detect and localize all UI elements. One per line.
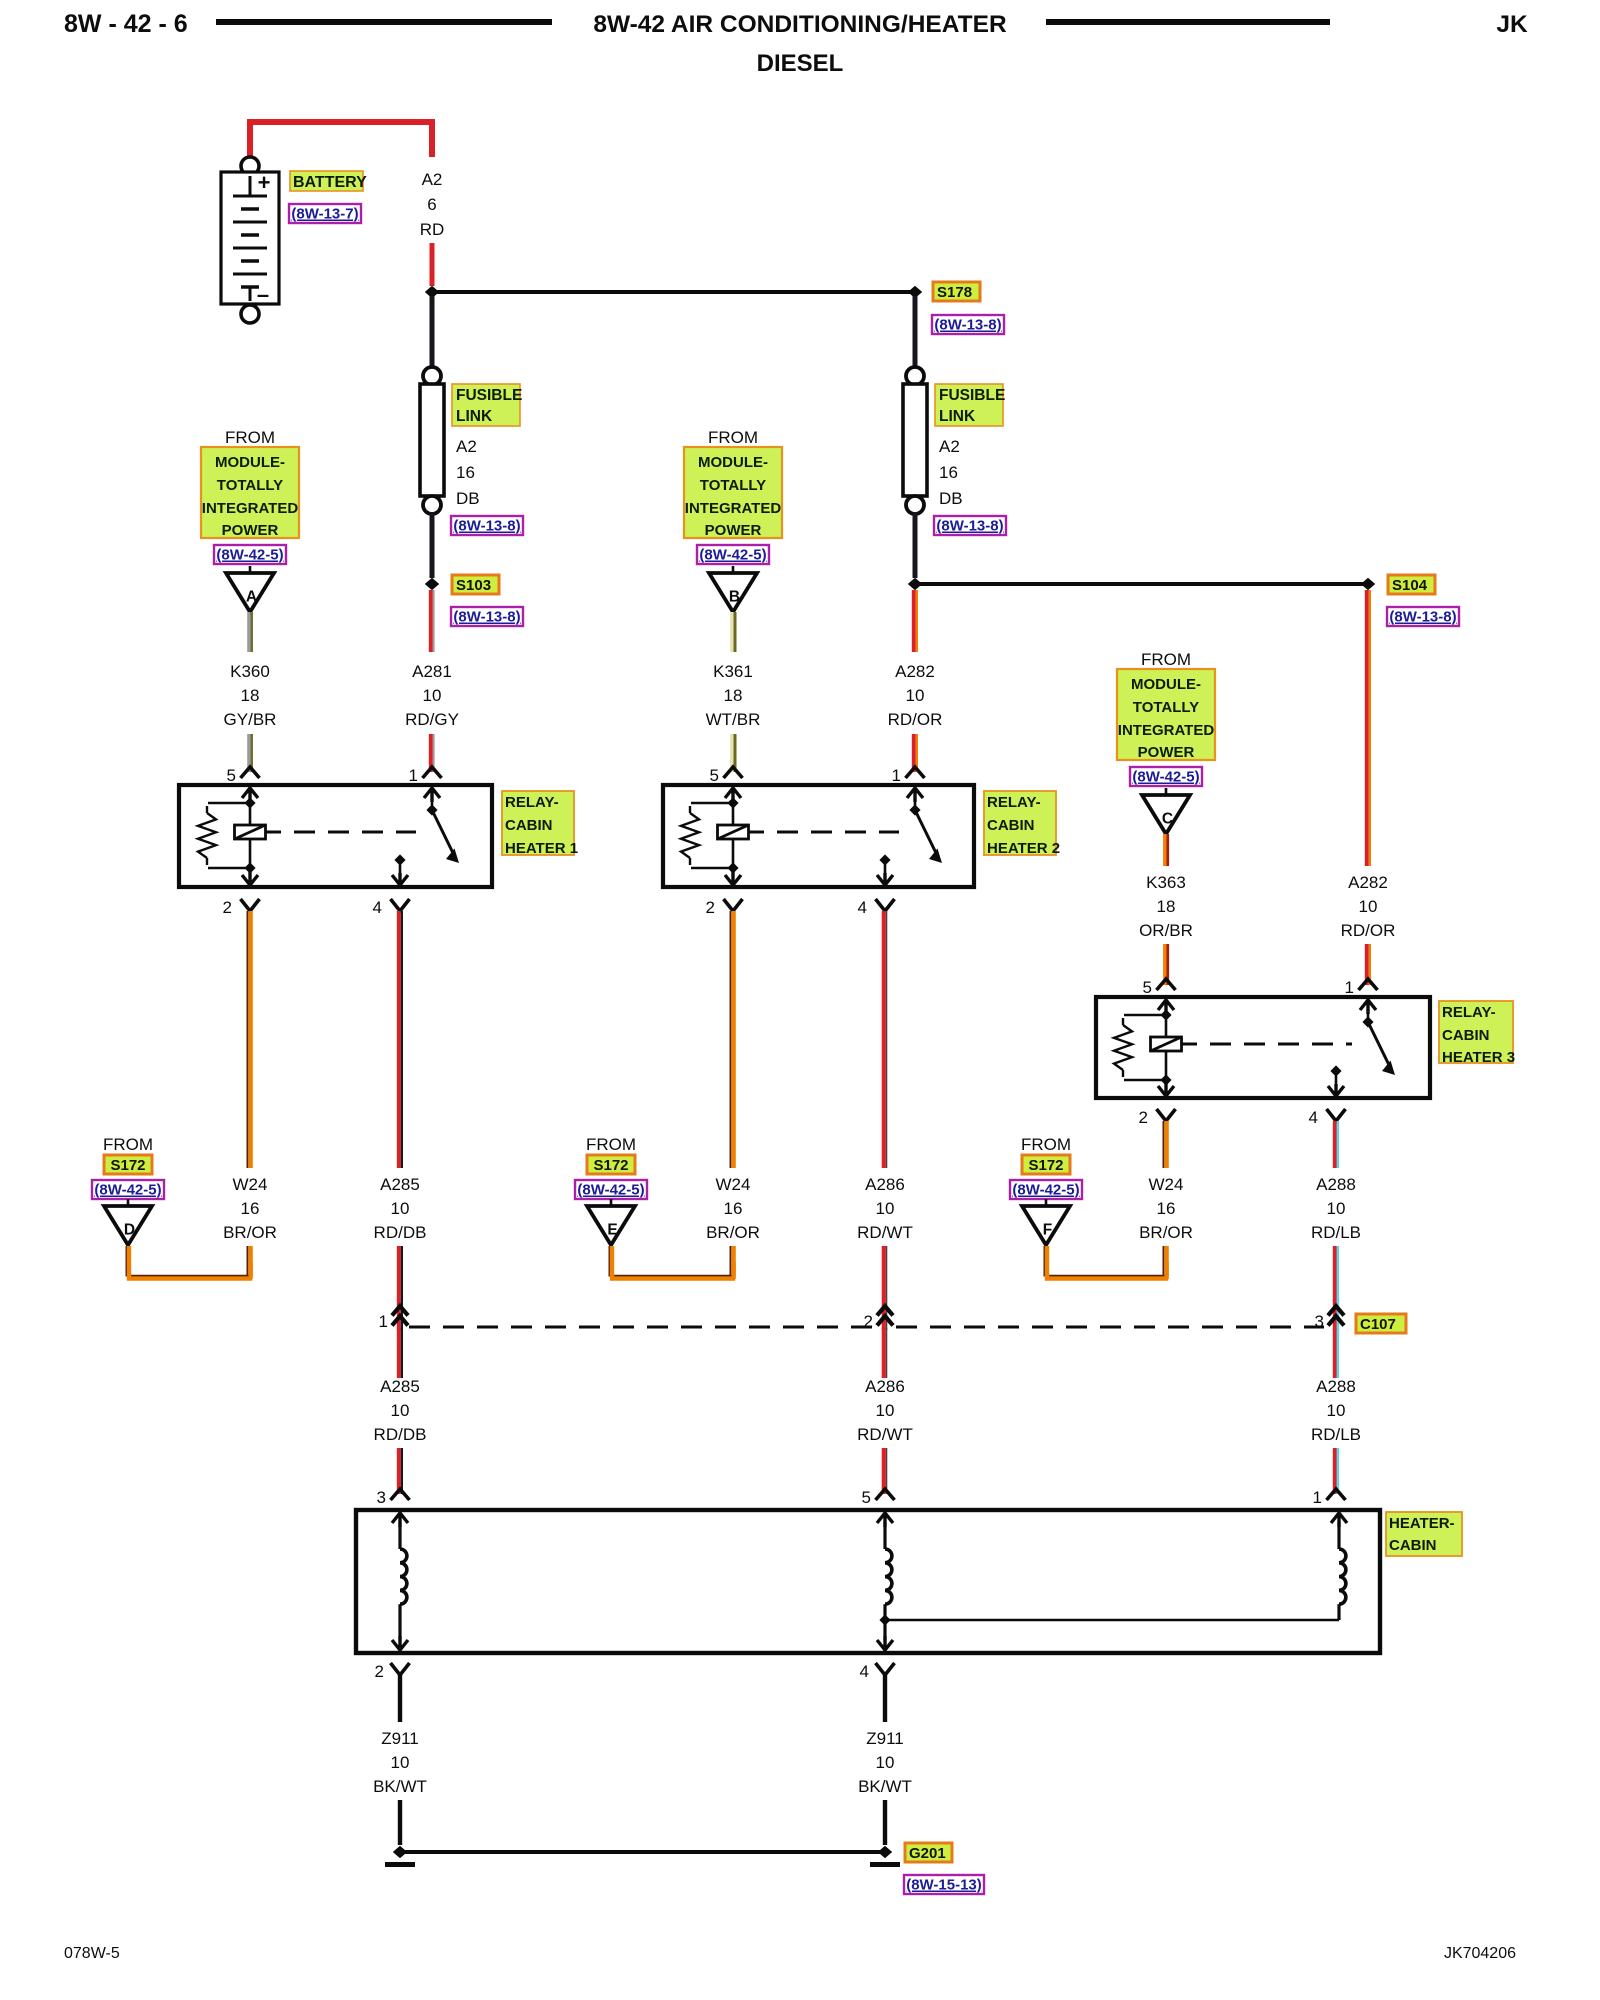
wire K361 18 WT/BR upper segment [730, 612, 733, 652]
svg-text:(8W-13-8): (8W-13-8) [453, 609, 520, 626]
S172 hyperlink 8W-42-5 (D) [92, 1180, 164, 1199]
relay 3 switch blade [1368, 1022, 1389, 1065]
svg-text:DB: DB [456, 489, 480, 508]
connector C107 dashed line segment 1 [409, 1326, 874, 1329]
svg-text:MODULE-: MODULE- [215, 454, 285, 471]
svg-text:LINK: LINK [939, 408, 976, 425]
relay 2 coil [732, 803, 735, 824]
svg-text:FROM: FROM [586, 1135, 636, 1154]
ground G201 left junction [393, 1846, 407, 1858]
fusible link terminal bottom [906, 496, 924, 514]
battery [221, 172, 279, 304]
svg-text:(8W-13-8): (8W-13-8) [1389, 609, 1456, 626]
svg-text:3: 3 [377, 1488, 386, 1507]
svg-text:S172: S172 [593, 1157, 628, 1174]
relay K2 box RELAY-CABIN HEATER 2 [663, 785, 974, 887]
svg-text:FROM: FROM [708, 428, 758, 447]
wire K361 lower segment [730, 734, 733, 772]
svg-text:A2: A2 [939, 437, 960, 456]
wire W24 to splice corner (left) [246, 1246, 248, 1276]
svg-text:A2: A2 [456, 437, 477, 456]
svg-text:5: 5 [1143, 978, 1152, 997]
svg-text:A288: A288 [1316, 1175, 1356, 1194]
svg-text:5: 5 [862, 1488, 871, 1507]
svg-text:RD/LB: RD/LB [1311, 1425, 1361, 1444]
svg-text:FROM: FROM [1021, 1135, 1071, 1154]
relay 2 pin 2 connector fork [724, 899, 743, 911]
TIPM hyperlink 8W-42-5 (B) [697, 545, 769, 564]
node S104 junction [1361, 578, 1375, 590]
heater pin 5 connector fork [876, 1489, 895, 1500]
fusible link hyperlink 8W-13-8 [451, 516, 523, 535]
svg-text:HEATER-: HEATER- [1389, 1515, 1455, 1532]
S172 hyperlink 8W-42-5 (F) [1010, 1180, 1082, 1199]
fusible link terminal top [906, 367, 924, 385]
S172 hyperlink 8W-42-5 (E) [575, 1180, 647, 1199]
svg-text:2: 2 [1139, 1108, 1148, 1127]
wire A281 10 RD/GY upper segment [429, 590, 433, 652]
wire W24 to splice corner (middle) [729, 1246, 731, 1276]
header rule left [216, 19, 552, 25]
relay 2 pin 4 connector fork [876, 899, 895, 911]
svg-text:B: B [729, 589, 740, 606]
heater-cabin unit box [356, 1510, 1380, 1653]
splice S172 label (F) [1022, 1155, 1070, 1174]
svg-text:(8W-42-5): (8W-42-5) [1012, 1182, 1079, 1199]
svg-text:4: 4 [373, 898, 382, 917]
svg-text:16: 16 [456, 463, 475, 482]
svg-text:10: 10 [1327, 1199, 1346, 1218]
wire Z911 to ground (left) [398, 1800, 402, 1845]
svg-text:2: 2 [375, 1662, 384, 1681]
ground G201 right junction [878, 1846, 892, 1858]
wire A288 to connector C107 [1333, 1246, 1337, 1330]
wire Z911 10 BK/WT segment (right) [883, 1675, 887, 1722]
splice S172 label (D) [104, 1155, 152, 1174]
fusible link body [420, 384, 444, 496]
svg-text:16: 16 [241, 1199, 260, 1218]
svg-text:16: 16 [724, 1199, 743, 1218]
relay 3 N.O. contact arrow pin 87 [1330, 1065, 1341, 1076]
svg-text:LINK: LINK [456, 408, 493, 425]
svg-text:FROM: FROM [225, 428, 275, 447]
node S178 hyperlink 8W-13-8 [932, 315, 1004, 334]
svg-text:CABIN: CABIN [1389, 1537, 1437, 1554]
fusible link label [935, 384, 1003, 426]
wire A282 10 RD/OR upper segment [912, 590, 916, 652]
svg-text:(8W-13-8): (8W-13-8) [934, 317, 1001, 334]
battery positive feed wire A2 6 RD [250, 122, 432, 160]
off-page connector triangle A [249, 566, 252, 573]
svg-text:OR/BR: OR/BR [1139, 921, 1193, 940]
svg-text:CABIN: CABIN [1442, 1027, 1490, 1044]
svg-text:WT/BR: WT/BR [706, 710, 761, 729]
svg-text:BATTERY: BATTERY [293, 174, 367, 191]
C107 crossing chevrons A288 cavity 3 [1328, 1306, 1344, 1326]
relay 1 label RELAY-CABIN HEATER 1 [502, 791, 574, 855]
off-page connector triangle C [1165, 788, 1168, 795]
relay 1 actuating dashed link [266, 831, 282, 834]
svg-text:18: 18 [1157, 897, 1176, 916]
wire A286 to connector C107 [882, 1246, 886, 1330]
relay 3 common terminal arrow pin 30 [1360, 1000, 1376, 1014]
relay 2 pin 1 connector fork [906, 767, 925, 778]
svg-text:10: 10 [1359, 897, 1378, 916]
battery hyperlink 8W-13-7 [289, 204, 361, 223]
off-page connector triangle D [127, 1199, 130, 1206]
svg-text:W24: W24 [1149, 1175, 1184, 1194]
relay 1 resistor (coil suppression) [208, 802, 250, 805]
svg-text:G201: G201 [909, 1845, 946, 1862]
svg-text:CABIN: CABIN [987, 817, 1035, 834]
wire W24 jumper from F to splice [1044, 1246, 1165, 1276]
svg-text:S172: S172 [1028, 1157, 1063, 1174]
svg-text:1: 1 [379, 1312, 388, 1331]
svg-text:(8W-42-5): (8W-42-5) [699, 547, 766, 564]
svg-text:TOTALLY: TOTALLY [1133, 699, 1199, 716]
TIPM hyperlink 8W-42-5 (A) [214, 545, 286, 564]
svg-text:10: 10 [876, 1753, 895, 1772]
wire A285 10 RD/DB segment below relay 1 [397, 911, 401, 1168]
svg-text:MODULE-: MODULE- [698, 454, 768, 471]
heater element internal tie wire [885, 1619, 1339, 1622]
svg-text:JK: JK [1496, 11, 1528, 38]
fusible link terminal top [423, 367, 441, 385]
fusible link hyperlink 8W-13-8 [934, 516, 1006, 535]
svg-text:10: 10 [391, 1199, 410, 1218]
svg-text:3: 3 [1315, 1312, 1324, 1331]
ground G201 hyperlink 8W-15-13 [904, 1875, 984, 1894]
svg-text:FUSIBLE: FUSIBLE [939, 387, 1005, 404]
relay 1 pin 4 connector fork [391, 899, 410, 911]
header rule right [1046, 19, 1330, 25]
svg-text:FROM: FROM [103, 1135, 153, 1154]
svg-text:INTEGRATED: INTEGRATED [1118, 722, 1215, 739]
wire K363 lower segment [1163, 944, 1166, 985]
svg-text:(8W-42-5): (8W-42-5) [577, 1182, 644, 1199]
svg-text:A288: A288 [1316, 1377, 1356, 1396]
relay 3 coil ground arrow [1158, 1082, 1174, 1096]
wire A2 16 DB below fusible link [430, 512, 435, 578]
svg-text:4: 4 [860, 1662, 869, 1681]
relay K1 box RELAY-CABIN HEATER 1 [179, 785, 492, 887]
svg-text:POWER: POWER [705, 522, 762, 539]
wire W24 16 BR/OR segment below relay 3 [1162, 1121, 1164, 1168]
svg-text:2: 2 [223, 898, 232, 917]
svg-text:10: 10 [906, 686, 925, 705]
svg-text:K361: K361 [713, 662, 753, 681]
wire A282 lower segment [912, 734, 916, 772]
svg-text:BR/OR: BR/OR [706, 1223, 760, 1242]
ground G201 label [905, 1843, 952, 1862]
ground symbol left [385, 1862, 415, 1867]
relay 1 pin 2 connector fork [241, 899, 260, 911]
svg-text:INTEGRATED: INTEGRATED [202, 500, 299, 517]
node S103 label [452, 575, 499, 594]
relay 1 coil ground arrow [242, 871, 258, 885]
svg-text:K360: K360 [230, 662, 270, 681]
svg-text:16: 16 [939, 463, 958, 482]
module-totally integrated power block C [1117, 669, 1215, 760]
svg-text:JK704206: JK704206 [1444, 1945, 1516, 1962]
svg-text:(8W-42-5): (8W-42-5) [1132, 769, 1199, 786]
svg-text:BK/WT: BK/WT [858, 1777, 912, 1796]
svg-text:A286: A286 [865, 1377, 905, 1396]
svg-text:(8W-42-5): (8W-42-5) [94, 1182, 161, 1199]
relay 3 resistor (coil suppression) [1124, 1014, 1166, 1017]
svg-text:6: 6 [427, 195, 436, 214]
svg-text:1: 1 [1313, 1488, 1322, 1507]
heater pin 3 connector fork [391, 1489, 410, 1500]
svg-text:(8W-15-13): (8W-15-13) [906, 1877, 982, 1894]
svg-text:10: 10 [423, 686, 442, 705]
svg-text:S178: S178 [937, 284, 972, 301]
svg-text:RD/OR: RD/OR [888, 710, 943, 729]
wire A285 10 RD/DB below C107 [397, 1328, 401, 1378]
svg-text:DB: DB [939, 489, 963, 508]
svg-text:BR/OR: BR/OR [1139, 1223, 1193, 1242]
svg-text:MODULE-: MODULE- [1131, 676, 1201, 693]
svg-text:2: 2 [706, 898, 715, 917]
relay 3 pin 2 connector fork [1157, 1109, 1176, 1121]
svg-text:5: 5 [227, 766, 236, 785]
C107 crossing chevrons A286 cavity 2 [877, 1306, 893, 1326]
relay 2 actuating dashed link [749, 831, 765, 834]
svg-text:HEATER 1: HEATER 1 [505, 840, 578, 857]
svg-text:4: 4 [1309, 1108, 1318, 1127]
wire A281 lower segment [429, 734, 433, 772]
svg-text:W24: W24 [233, 1175, 268, 1194]
svg-text:(8W-13-8): (8W-13-8) [936, 518, 1003, 535]
svg-text:RD/WT: RD/WT [857, 1425, 913, 1444]
svg-text:RD/DB: RD/DB [374, 1223, 427, 1242]
relay 1 coil terminal arrow pin 85 side [242, 788, 258, 802]
wire K360 lower segment [247, 734, 250, 772]
svg-text:F: F [1043, 1222, 1052, 1239]
off-page connector triangle F [1045, 1199, 1048, 1206]
svg-text:FROM: FROM [1141, 650, 1191, 669]
heater pin 4 connector fork [876, 1663, 895, 1675]
svg-text:A282: A282 [895, 662, 935, 681]
relay 3 coil [1165, 1015, 1168, 1036]
svg-text:RD/DB: RD/DB [374, 1425, 427, 1444]
wire W24 jumper from E to splice [609, 1246, 732, 1276]
module-totally integrated power block A [201, 447, 299, 538]
relay 2 label RELAY-CABIN HEATER 2 [984, 791, 1056, 855]
heater element at x=400 [392, 1513, 408, 1527]
svg-text:RD/WT: RD/WT [857, 1223, 913, 1242]
svg-text:A: A [246, 589, 257, 606]
relay 1 pin 5 connector fork [241, 767, 260, 778]
svg-text:W24: W24 [716, 1175, 751, 1194]
heater pin 1 connector fork [1327, 1489, 1346, 1500]
off-page connector triangle B [732, 566, 735, 573]
wire A2 16 DB into fusible link at x=432 [430, 296, 435, 369]
node S103 junction [425, 578, 439, 590]
node S103 hyperlink 8W-13-8 [451, 607, 523, 626]
wire W24 jumper from D to splice [126, 1246, 249, 1276]
node S104 hyperlink 8W-13-8 [1387, 607, 1459, 626]
wire A288 10 RD/LB segment below relay 3 [1333, 1121, 1337, 1168]
svg-text:BR/OR: BR/OR [223, 1223, 277, 1242]
svg-text:A285: A285 [380, 1377, 420, 1396]
svg-text:A286: A286 [865, 1175, 905, 1194]
relay 2 common terminal arrow pin 30 [907, 788, 923, 802]
svg-text:(8W-13-8): (8W-13-8) [453, 518, 520, 535]
svg-text:POWER: POWER [1138, 744, 1195, 761]
svg-text:RD/GY: RD/GY [405, 710, 459, 729]
C107 crossing chevrons A285 cavity 1 [392, 1306, 408, 1326]
node S178 junction [908, 286, 922, 298]
heater element internal tie junction [879, 1614, 890, 1625]
svg-text:HEATER 2: HEATER 2 [987, 840, 1060, 857]
svg-text:HEATER 3: HEATER 3 [1442, 1049, 1515, 1066]
relay 2 N.O. contact arrow pin 87 [879, 854, 890, 865]
svg-text:E: E [607, 1222, 617, 1239]
connector C107 dashed line segment 2 [896, 1326, 1324, 1329]
relay 2 pin 5 connector fork [724, 767, 743, 778]
svg-text:RD/LB: RD/LB [1311, 1223, 1361, 1242]
relay 1 coil [249, 803, 252, 824]
relay 3 actuating dashed link [1182, 1043, 1198, 1046]
heater pin 2 connector fork [391, 1663, 410, 1675]
node S178 label [933, 282, 980, 301]
svg-text:GY/BR: GY/BR [224, 710, 277, 729]
ground tie line [400, 1850, 885, 1854]
svg-text:1: 1 [409, 766, 418, 785]
svg-text:10: 10 [391, 1401, 410, 1420]
splice S172 label (E) [587, 1155, 635, 1174]
svg-text:INTEGRATED: INTEGRATED [685, 500, 782, 517]
fusible link label [452, 384, 520, 426]
connector C107 label [1356, 1314, 1406, 1333]
wire A288 into heater pin 1 [1333, 1448, 1337, 1494]
off-page connector triangle E [610, 1199, 613, 1206]
svg-text:BK/WT: BK/WT [373, 1777, 427, 1796]
svg-text:8W - 42 - 6: 8W - 42 - 6 [64, 10, 188, 38]
svg-text:(8W-13-7): (8W-13-7) [291, 206, 358, 223]
heater element at x=1339 [1331, 1513, 1347, 1527]
svg-text:RD: RD [420, 220, 445, 239]
svg-text:A285: A285 [380, 1175, 420, 1194]
svg-text:2: 2 [864, 1312, 873, 1331]
svg-text:RD/OR: RD/OR [1341, 921, 1396, 940]
svg-text:078W-5: 078W-5 [64, 1945, 120, 1962]
wire A285 into heater pin 3 [397, 1448, 401, 1494]
fusible link body [903, 384, 927, 496]
wire A2 6 RD lower segment [430, 243, 435, 286]
tie line to node S104 [915, 582, 1368, 586]
svg-text:C107: C107 [1360, 1316, 1396, 1333]
wire A282 lower segment (right) [1365, 944, 1369, 985]
svg-text:18: 18 [241, 686, 260, 705]
wire A286 10 RD/WT segment below relay 2 [882, 911, 886, 1168]
svg-text:1: 1 [892, 766, 901, 785]
svg-text:10: 10 [876, 1401, 895, 1420]
relay 1 pin 1 connector fork [423, 767, 442, 778]
wire W24 16 BR/OR segment below relay 2 [729, 911, 731, 1168]
svg-text:10: 10 [1327, 1401, 1346, 1420]
wire A282 10 RD/OR from S104 [1365, 590, 1369, 866]
svg-text:–: – [257, 282, 269, 307]
svg-text:A282: A282 [1348, 873, 1388, 892]
svg-text:S172: S172 [110, 1157, 145, 1174]
ground symbol right [870, 1862, 900, 1867]
relay 1 N.O. contact arrow pin 87 [394, 854, 405, 865]
relay 3 pin 5 connector fork [1157, 979, 1176, 990]
svg-text:10: 10 [391, 1753, 410, 1772]
battery positive terminal [241, 157, 259, 175]
wire K363 18 OR/BR upper segment [1163, 834, 1166, 866]
svg-text:TOTALLY: TOTALLY [700, 477, 766, 494]
svg-text:TOTALLY: TOTALLY [217, 477, 283, 494]
svg-text:DIESEL: DIESEL [757, 50, 844, 77]
heater-cabin label [1386, 1512, 1462, 1556]
relay 3 label RELAY-CABIN HEATER 3 [1439, 1001, 1513, 1063]
relay 3 pin 4 connector fork [1327, 1109, 1346, 1121]
wire A288 10 RD/LB below C107 [1333, 1328, 1337, 1378]
relay 1 switch blade [432, 810, 453, 853]
svg-text:RELAY-: RELAY- [505, 794, 559, 811]
wire A2 16 DB below fusible link [913, 512, 918, 578]
relay 3 pin 1 connector fork [1359, 979, 1378, 990]
wire W24 16 BR/OR segment below relay 1 [246, 911, 248, 1168]
svg-text:8W-42 AIR CONDITIONING/HEATER: 8W-42 AIR CONDITIONING/HEATER [593, 11, 1007, 38]
wire K360 18 GY/BR upper segment [247, 612, 250, 652]
node at relay2 feed junction [908, 578, 922, 590]
svg-text:16: 16 [1157, 1199, 1176, 1218]
svg-text:FUSIBLE: FUSIBLE [456, 387, 522, 404]
relay 2 resistor (coil suppression) [691, 802, 733, 805]
wire A2 16 DB into fusible link at x=915 [913, 296, 918, 369]
wire A285 to connector C107 [397, 1246, 401, 1330]
battery label [290, 171, 363, 191]
svg-text:4: 4 [858, 898, 867, 917]
svg-text:RELAY-: RELAY- [987, 794, 1041, 811]
svg-text:5: 5 [710, 766, 719, 785]
svg-text:18: 18 [724, 686, 743, 705]
battery negative terminal [241, 305, 259, 323]
wire A286 10 RD/WT below C107 [882, 1328, 886, 1378]
wire Z911 10 BK/WT segment (left) [398, 1675, 402, 1722]
svg-text:K363: K363 [1146, 873, 1186, 892]
svg-text:C: C [1162, 811, 1173, 828]
relay 1 common terminal arrow pin 30 [424, 788, 440, 802]
svg-text:10: 10 [876, 1199, 895, 1218]
svg-text:RELAY-: RELAY- [1442, 1004, 1496, 1021]
wire A286 into heater pin 5 [882, 1448, 886, 1494]
junction at A2 split [425, 286, 439, 298]
svg-text:1: 1 [1345, 978, 1354, 997]
svg-text:Z911: Z911 [381, 1729, 419, 1748]
fusible link terminal bottom [423, 496, 441, 514]
relay 3 coil terminal arrow pin 85 side [1158, 1000, 1174, 1014]
svg-text:CABIN: CABIN [505, 817, 553, 834]
svg-text:S104: S104 [1392, 577, 1428, 594]
wire W24 to splice corner (right) [1162, 1246, 1164, 1276]
relay 2 switch blade [915, 810, 936, 853]
svg-text:D: D [124, 1222, 135, 1239]
module-totally integrated power block B [684, 447, 782, 538]
svg-text:Z911: Z911 [866, 1729, 904, 1748]
relay 2 coil terminal arrow pin 85 side [725, 788, 741, 802]
node S104 label [1388, 575, 1435, 594]
svg-text:A2: A2 [422, 170, 443, 189]
svg-text:S103: S103 [456, 577, 491, 594]
svg-text:POWER: POWER [222, 522, 279, 539]
svg-text:+: + [258, 170, 271, 195]
heater element at x=885 [877, 1513, 893, 1527]
